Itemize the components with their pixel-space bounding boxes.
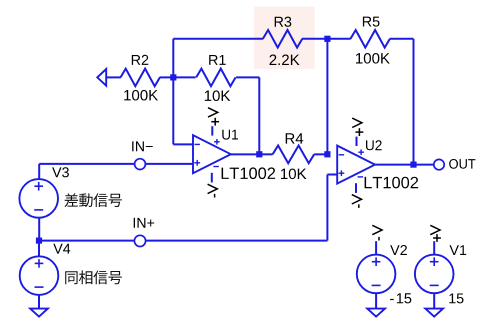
wire xyxy=(172,77,174,144)
wire xyxy=(172,39,174,78)
U2 V+ flag xyxy=(352,118,363,136)
voltage source V2 xyxy=(357,241,411,308)
wire xyxy=(326,39,328,155)
op-amp U1 xyxy=(193,126,275,182)
op-amp U2 xyxy=(337,137,418,193)
node OUT junction xyxy=(410,162,416,168)
wire xyxy=(231,153,259,155)
ground V2 xyxy=(367,309,385,317)
wire xyxy=(173,143,193,145)
port IN- xyxy=(132,141,153,169)
label 同相信号 xyxy=(65,270,122,284)
ground (rotated) at R2 xyxy=(97,69,106,86)
V1 flag +V xyxy=(430,225,441,242)
ground V1 xyxy=(425,309,443,317)
resistor R4 xyxy=(259,133,327,179)
resistor R3 xyxy=(263,17,302,65)
wire xyxy=(258,77,260,154)
resistor R5 xyxy=(327,17,413,64)
highlight box on R3 xyxy=(254,7,315,69)
node R3/R5 junction xyxy=(324,36,330,42)
wire xyxy=(327,174,337,176)
wire xyxy=(302,38,327,40)
node V3/V4 junction xyxy=(36,238,42,244)
U1 V- flag xyxy=(208,184,218,197)
ground V4 xyxy=(30,309,48,317)
U2 V- flag xyxy=(352,195,362,208)
port OUT xyxy=(434,159,476,170)
voltage source V4 xyxy=(20,241,71,309)
resistor R2 xyxy=(106,55,173,101)
U1 V+ flag xyxy=(208,108,219,126)
V2 flag -V xyxy=(372,225,382,240)
resistor R1 xyxy=(173,55,259,101)
voltage source V1 xyxy=(415,241,466,308)
wire xyxy=(375,164,414,166)
wire IN- net xyxy=(39,163,193,165)
wire IN+ net xyxy=(39,240,327,242)
wire xyxy=(173,38,263,40)
node U1 out junction xyxy=(256,151,262,157)
wire xyxy=(414,164,434,166)
voltage source V3 xyxy=(19,164,69,241)
node U2 inv junction xyxy=(324,151,330,157)
port IN+ xyxy=(134,218,155,247)
label 差動信号 xyxy=(65,193,122,207)
wire xyxy=(326,175,328,241)
wire xyxy=(413,39,415,165)
node A junction xyxy=(170,74,176,80)
